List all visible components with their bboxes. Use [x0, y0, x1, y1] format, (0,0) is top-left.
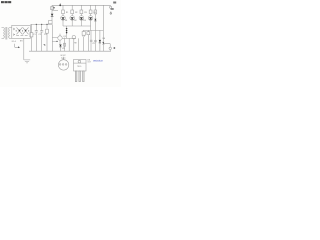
- svg-text:www.circuits.com: www.circuits.com: [93, 60, 103, 63]
- svg-text:R1: R1: [66, 12, 68, 14]
- svg-text:D3: D3: [83, 20, 85, 22]
- svg-text:R8: R8: [74, 42, 76, 44]
- svg-text:b.view: b.view: [61, 57, 66, 59]
- svg-text:R4: R4: [94, 12, 96, 14]
- svg-text:D2: D2: [74, 20, 76, 22]
- svg-text:R2: R2: [75, 12, 77, 14]
- svg-text:D1-4: D1-4: [12, 41, 16, 43]
- svg-text:D1: D1: [65, 20, 67, 22]
- svg-text:R3: R3: [84, 12, 86, 14]
